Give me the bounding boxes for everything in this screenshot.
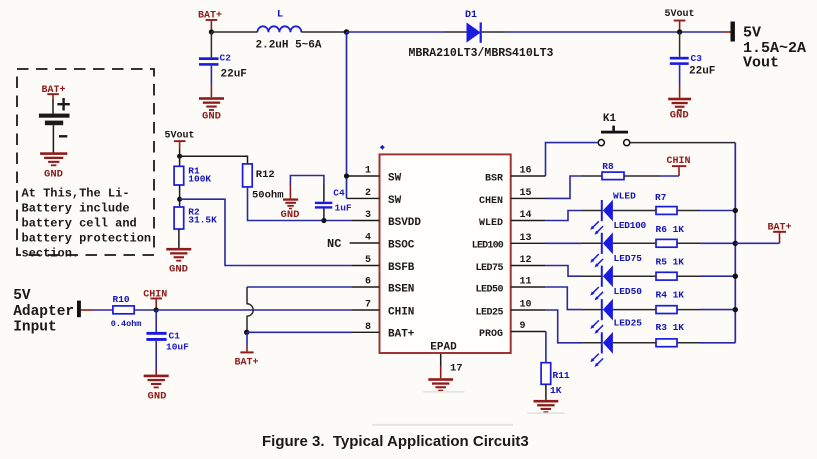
svg-text:C4: C4: [333, 187, 345, 198]
pin 14 WLED: [479, 210, 545, 229]
switch K1: [598, 113, 630, 146]
pin 3 BSVDD: [352, 210, 421, 229]
junction dot bus/LED75: [733, 274, 738, 279]
svg-text:R10: R10: [113, 294, 130, 305]
ground (C2): [199, 97, 224, 122]
LED LED25: [590, 318, 642, 368]
wire: [700, 242, 735, 244]
wire: [301, 31, 346, 33]
wire: [582, 275, 602, 277]
wire: [248, 187, 353, 221]
svg-text:1uF: 1uF: [335, 203, 352, 214]
resistor R11: [541, 363, 570, 396]
pin 17 EPAD stub: [441, 354, 463, 379]
svg-text:SW: SW: [388, 172, 402, 184]
output terminal bar: [731, 22, 735, 42]
LED LED75: [590, 253, 642, 301]
wire: [210, 32, 212, 57]
wire: [155, 341, 157, 369]
blue diamond marker: [380, 145, 385, 150]
svg-text:2.2uH 5~6A: 2.2uH 5~6A: [256, 40, 322, 52]
wire: [700, 309, 735, 311]
wire: [155, 310, 157, 332]
svg-text:5V: 5V: [13, 288, 31, 304]
svg-text:R8: R8: [602, 161, 614, 172]
battery minus sign: [59, 135, 67, 137]
svg-text:CHIN: CHIN: [388, 306, 414, 318]
svg-text:R6 1K: R6 1K: [656, 224, 685, 235]
junction dot L/SW: [344, 29, 350, 35]
resistor R1: [174, 166, 211, 186]
svg-text:GND: GND: [281, 209, 300, 221]
wire: [445, 31, 468, 33]
ground (C1): [144, 375, 169, 403]
wire: [211, 31, 257, 33]
op IC U1 body: [380, 154, 511, 353]
svg-text:31.5K: 31.5K: [188, 214, 217, 225]
svg-text:1: 1: [365, 166, 371, 177]
wire: [546, 143, 599, 176]
ground (C4 bridge): [281, 198, 300, 221]
svg-text:MBRA210LT3/MBRS410LT3: MBRA210LT3/MBRS410LT3: [409, 47, 554, 60]
wire: [178, 229, 180, 248]
wire: [677, 275, 700, 277]
capacitor C1: [146, 330, 189, 352]
wire: [700, 342, 735, 344]
svg-text:BAT+: BAT+: [388, 329, 415, 341]
svg-text:LED50: LED50: [614, 286, 643, 297]
svg-text:Input: Input: [13, 319, 57, 335]
inductor L: [256, 9, 322, 52]
svg-text:Figure 3. Typical Application: Figure 3. Typical Application Circuit3: [262, 433, 529, 450]
svg-text:LED75: LED75: [475, 263, 503, 274]
svg-text:L: L: [277, 9, 283, 21]
wire: [677, 242, 700, 244]
adapter input text: [13, 288, 74, 336]
output text 5V 1.5A~2A Vout: [743, 24, 806, 71]
wire: [134, 309, 156, 311]
wire: [724, 31, 731, 33]
LED LED50: [590, 286, 642, 334]
node BAT+ (right): [735, 222, 791, 243]
wire: [179, 156, 181, 166]
battery section dashed box: [17, 69, 154, 255]
svg-text:Vout: Vout: [743, 55, 779, 72]
svg-text:CHEN: CHEN: [479, 196, 503, 207]
ground (R2): [166, 248, 191, 276]
wire (LED25 jog): [545, 310, 582, 343]
svg-text:Battery include: Battery include: [22, 201, 130, 215]
junction dot BAT+/C2: [209, 29, 214, 34]
wire (right bus): [734, 143, 736, 343]
svg-text:C3: C3: [691, 53, 703, 64]
svg-text:5Vout: 5Vout: [664, 9, 694, 20]
svg-text:BSR: BSR: [485, 173, 503, 184]
node CHIN (left): [143, 289, 167, 310]
battery note text: [22, 186, 152, 260]
wire (LED50 jog): [545, 287, 582, 310]
LED WLED: [590, 190, 636, 234]
pin 12 LED75: [475, 255, 545, 274]
svg-text:3: 3: [365, 210, 371, 221]
svg-text:R4 1K: R4 1K: [656, 289, 685, 300]
wire: [52, 100, 54, 114]
svg-text:BSVDD: BSVDD: [388, 217, 421, 229]
LED LED100: [590, 220, 646, 268]
pin 13 LED100: [472, 233, 545, 252]
wire: [613, 210, 656, 212]
wire: [289, 185, 291, 199]
svg-text:11: 11: [520, 277, 532, 288]
resistor R4: [656, 289, 685, 313]
wire (LED75 jog): [545, 266, 582, 277]
ground (battery): [40, 152, 67, 180]
junction dot bus/LED100: [733, 241, 738, 246]
wire: [613, 309, 656, 311]
svg-text:WLED: WLED: [479, 218, 503, 229]
capacitor C4: [315, 187, 352, 213]
battery cell: [39, 114, 70, 126]
pin 11 LED50: [475, 277, 545, 296]
wire: [582, 242, 602, 244]
node BAT+ (top rail): [198, 11, 222, 32]
svg-text:BSFB: BSFB: [388, 262, 415, 274]
wire: [323, 185, 325, 202]
capacitor C3: [670, 53, 716, 78]
svg-text:16: 16: [520, 166, 532, 177]
svg-text:BSOC: BSOC: [388, 239, 415, 251]
ground (EPAD): [423, 378, 464, 392]
svg-text:100K: 100K: [188, 173, 211, 184]
svg-text:section.: section.: [22, 246, 80, 260]
wire: [545, 384, 547, 400]
wire (SW vertical): [346, 32, 348, 198]
svg-text:2: 2: [365, 188, 371, 199]
svg-text:R5 1K: R5 1K: [656, 256, 685, 267]
wire: [582, 210, 602, 212]
pin 4 BSOC: [350, 233, 415, 252]
wire: [210, 85, 212, 97]
pin 7 CHIN: [352, 300, 414, 319]
svg-text:5: 5: [365, 255, 371, 266]
resistor R10: [111, 294, 142, 329]
svg-text:22uF: 22uF: [689, 66, 715, 78]
svg-text:BSEN: BSEN: [388, 283, 414, 295]
adapter terminal bar: [77, 301, 81, 318]
svg-text:5Vout: 5Vout: [164, 131, 194, 142]
svg-text:C2: C2: [220, 53, 232, 64]
node 5Vout (left): [164, 131, 194, 157]
battery plus sign: [57, 98, 69, 111]
wire: [613, 242, 656, 244]
svg-text:R12: R12: [256, 169, 275, 181]
wire: [660, 175, 679, 177]
junction dot CHIN/C1: [154, 307, 159, 312]
svg-text:EPAD: EPAD: [430, 341, 457, 353]
svg-text:9: 9: [520, 321, 526, 332]
pin 9 PROG: [479, 321, 546, 340]
svg-text:8: 8: [365, 322, 371, 333]
wire: [180, 156, 248, 164]
svg-text:LED25: LED25: [475, 307, 503, 318]
svg-text:13: 13: [520, 233, 532, 244]
junction dot 5Vout/R1: [177, 154, 182, 159]
wire: [505, 31, 724, 33]
svg-text:GND: GND: [169, 263, 188, 275]
wire: [582, 175, 602, 177]
wire: [677, 309, 700, 311]
svg-text:10uF: 10uF: [166, 341, 189, 352]
pin 8 BAT+: [352, 322, 415, 341]
svg-text:15: 15: [520, 188, 532, 199]
svg-text:LED100: LED100: [472, 241, 504, 252]
resistor R3: [656, 322, 685, 347]
wire (PROG to R11): [545, 332, 547, 363]
caption underline artifact: [372, 424, 513, 426]
pin 5 BSFB: [352, 255, 415, 274]
svg-text:R11: R11: [553, 370, 570, 381]
wire: [679, 65, 681, 86]
svg-text:GND: GND: [202, 111, 221, 123]
svg-text:BAT+: BAT+: [234, 357, 258, 368]
svg-text:At This,The Li-: At This,The Li-: [22, 186, 130, 200]
wire: [582, 342, 602, 344]
ground (C3): [668, 98, 691, 122]
wire: [630, 142, 735, 144]
resistor R7: [655, 192, 677, 215]
svg-text:R3 1K: R3 1K: [656, 322, 685, 333]
ground (R11): [527, 400, 564, 413]
svg-text:1K: 1K: [550, 385, 562, 396]
junction dot C4/BSVDD: [321, 218, 326, 223]
node BAT+ (battery box): [41, 85, 65, 101]
svg-text:10: 10: [520, 300, 532, 311]
svg-text:14: 14: [520, 210, 532, 221]
svg-text:BAT+: BAT+: [767, 222, 791, 233]
node 5Vout (top): [664, 9, 694, 31]
wire: [155, 369, 157, 375]
svg-text:0.4ohm: 0.4ohm: [111, 319, 142, 329]
pin 16 BSR: [485, 166, 546, 185]
svg-text:LED25: LED25: [614, 318, 643, 329]
resistor R2: [174, 207, 217, 230]
pin 10 LED25: [475, 300, 545, 319]
wire (C4 gnd bridge): [290, 176, 324, 186]
svg-text:CHIN: CHIN: [666, 156, 690, 167]
svg-text:GND: GND: [44, 169, 63, 181]
wire: [613, 342, 656, 344]
wire (WLED jog): [545, 211, 582, 221]
svg-text:GND: GND: [148, 390, 167, 402]
wire (LED100 row): [545, 242, 582, 244]
svg-text:50ohm: 50ohm: [252, 190, 284, 202]
junction dot BAT+/BSEN: [244, 330, 249, 335]
resistor R6: [656, 224, 685, 247]
svg-text:LED50: LED50: [475, 284, 503, 295]
wire: [247, 331, 352, 333]
wire: [700, 275, 735, 277]
wire: [700, 210, 735, 212]
wire: [94, 309, 113, 311]
wire: [210, 66, 212, 85]
wire: [323, 209, 325, 221]
wire: [347, 31, 445, 33]
svg-text:12: 12: [520, 255, 532, 266]
svg-text:K1: K1: [603, 113, 617, 125]
wire: [613, 275, 656, 277]
svg-text:22uF: 22uF: [221, 69, 247, 81]
svg-text:LED75: LED75: [614, 253, 643, 264]
wire: [482, 31, 505, 33]
svg-text:battery cell and: battery cell and: [22, 216, 137, 230]
wire (CHEN jog): [545, 176, 582, 198]
junction dot SW pin1: [344, 173, 349, 178]
svg-text:5V: 5V: [743, 24, 761, 41]
svg-text:Adapter: Adapter: [13, 304, 74, 320]
svg-text:PROG: PROG: [479, 329, 503, 340]
svg-text:WLED: WLED: [613, 190, 636, 201]
wire: [156, 309, 352, 311]
wire: [52, 125, 54, 152]
resistor R5: [656, 256, 685, 280]
wire: [679, 86, 681, 98]
wire: [582, 309, 602, 311]
wire: [624, 175, 660, 177]
pin 1 SW: [347, 166, 402, 185]
svg-text:D1: D1: [465, 10, 477, 21]
svg-text:GND: GND: [670, 110, 689, 122]
svg-text:NC: NC: [327, 237, 341, 251]
wire: [679, 32, 681, 57]
capacitor C2: [199, 53, 247, 81]
junction dot bus/LED50: [733, 307, 738, 312]
junction dot bus/WLED: [733, 208, 738, 213]
junction dot R1/R2: [177, 197, 182, 202]
svg-text:battery protection: battery protection: [22, 231, 152, 245]
pin 2 SW: [347, 188, 402, 207]
wire: [179, 185, 181, 207]
wire: [81, 309, 94, 311]
pin 15 CHEN: [479, 188, 545, 207]
resistor R12: [243, 164, 284, 202]
node CHIN (right): [666, 156, 690, 176]
svg-text:SW: SW: [388, 195, 402, 207]
node BAT+ (bottom): [234, 332, 258, 368]
svg-text:17: 17: [450, 362, 463, 374]
svg-text:R7: R7: [655, 192, 667, 203]
svg-text:6: 6: [365, 277, 371, 288]
diode D1: [409, 10, 554, 60]
resistor R8: [602, 161, 624, 180]
wire (divider to BSFB): [180, 199, 352, 265]
svg-text:C1: C1: [169, 330, 181, 341]
pin 6 BSEN: [352, 277, 414, 296]
svg-text:LED100: LED100: [614, 220, 647, 231]
wire: [677, 342, 700, 344]
junction dot 5Vout/C3: [677, 29, 682, 34]
wire: [677, 210, 700, 212]
svg-text:7: 7: [365, 300, 371, 311]
wire (BSEN hop to BAT+): [247, 287, 352, 332]
svg-text:4: 4: [365, 233, 371, 244]
